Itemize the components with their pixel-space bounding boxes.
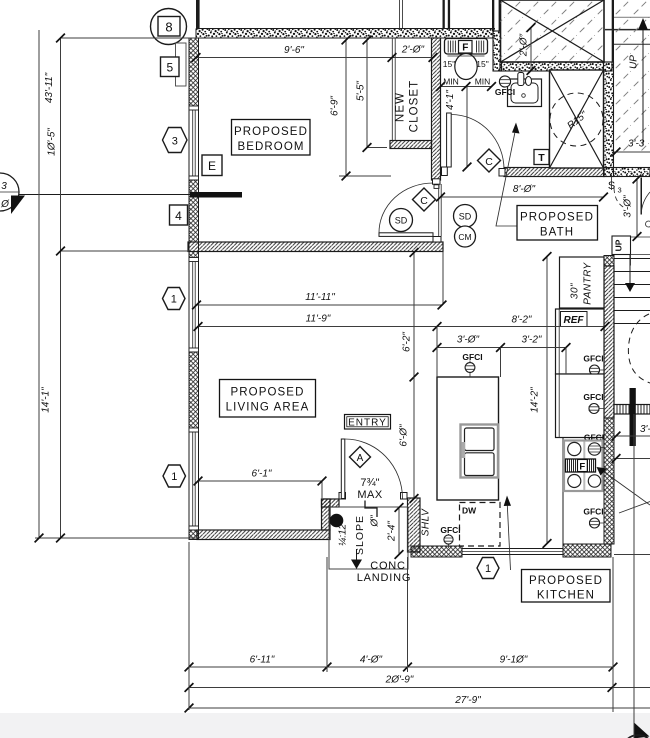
kitchen island: [437, 377, 499, 500]
door knob circle right edge: [646, 221, 650, 227]
bedroom door jamb top: [433, 179, 441, 184]
UP label box near stairs: [612, 236, 631, 255]
smoke detector SD hall: [454, 205, 477, 228]
bath door jamb left: [442, 167, 448, 176]
toilet tank stripes: [448, 41, 484, 53]
svg-text:SD: SD: [459, 212, 472, 222]
svg-text:GFCI: GFCI: [462, 352, 482, 362]
svg-text:8'-2": 8'-2": [512, 315, 532, 326]
left wall hatched segment 4: [189, 352, 199, 428]
vertical dim 6'-9": [339, 39, 391, 176]
vertical dim 14'-2": [546, 256, 548, 545]
label ENTRY: [345, 415, 391, 430]
island extension lines: [437, 327, 566, 378]
svg-text:GFCI: GFCI: [495, 87, 515, 97]
svg-text:3'-Ø": 3'-Ø": [457, 335, 480, 346]
column dot at landing: [330, 514, 344, 528]
svg-text:5: 5: [166, 61, 173, 75]
svg-text:C: C: [420, 195, 428, 207]
dim row 11'-9" / 8'-2": [197, 326, 606, 328]
svg-text:¼:12: ¼:12: [337, 523, 349, 546]
svg-text:PROPOSED: PROPOSED: [520, 212, 594, 224]
entry door swing arc: [345, 439, 403, 499]
range F box: [566, 459, 596, 473]
svg-text:9'-6": 9'-6": [284, 45, 304, 56]
wall lines above closet front: [400, 0, 403, 29]
beam section striped band right edge: [614, 405, 650, 415]
dashed stair curve: [628, 314, 650, 383]
svg-text:SD: SD: [395, 216, 408, 226]
entry step wall riser: [322, 499, 331, 530]
deck board lines top right: [614, 16, 650, 18]
left inner extension line: [60, 37, 62, 538]
kitchen counter section below REF: [556, 374, 605, 438]
svg-text:PROPOSED: PROPOSED: [231, 387, 305, 399]
closet right wall: [432, 38, 441, 180]
dim 3'-3 top right: [614, 151, 650, 153]
stair door swing arc right edge: [641, 192, 650, 215]
vertical dim 6'-2": [413, 252, 415, 378]
bath bottom wall stippled part to right edge: [604, 168, 650, 177]
svg-text:T: T: [538, 152, 545, 164]
top extension to wall: [61, 37, 197, 39]
stair door line at right edge: [640, 178, 642, 215]
svg-text:REF: REF: [564, 315, 585, 326]
svg-text:GFCI: GFCI: [583, 507, 603, 517]
svg-text:3'-2": 3'-2": [522, 335, 542, 346]
svg-text:2Ø'-9": 2Ø'-9": [385, 675, 414, 686]
right dims 3': [614, 435, 650, 437]
svg-text:3: 3: [1, 181, 7, 192]
tag stem rectangle below 8: [176, 43, 187, 86]
svg-text:E: E: [208, 159, 216, 173]
vertical dim 3'-0" right: [636, 178, 638, 237]
svg-text:CLOSET: CLOSET: [409, 80, 421, 133]
svg-text:MIN: MIN: [475, 77, 491, 87]
left outer extension line 43ft: [38, 30, 40, 538]
diamond A entry door: [350, 447, 371, 468]
svg-text:3: 3: [172, 136, 178, 148]
extension at divider wall: [61, 250, 190, 252]
svg-text:1: 1: [171, 294, 177, 306]
svg-text:SLOPE: SLOPE: [354, 515, 366, 555]
svg-text:11'-11": 11'-11": [305, 292, 335, 303]
svg-text:A: A: [357, 453, 364, 464]
svg-text:LANDING: LANDING: [357, 572, 412, 584]
bath sink basin: [511, 83, 538, 103]
diamond C bedroom door: [413, 188, 436, 211]
left wall hatched segment 3 below divider: [189, 252, 199, 258]
refrigerator box: [556, 309, 605, 374]
svg-text:GFCI: GFCI: [583, 392, 603, 402]
kitchen right wall cross-hatched segment: [604, 418, 614, 544]
svg-text:MAX: MAX: [357, 489, 383, 501]
entry door jamb right: [401, 493, 408, 500]
bath door swing arc: [451, 115, 504, 170]
svg-text:15": 15": [476, 59, 488, 69]
hall dim 8'-0": [440, 196, 604, 198]
entry wall top bar: [322, 499, 340, 507]
label PROPOSED BATH: [517, 206, 598, 241]
carbon monoxide CM hall: [455, 226, 476, 247]
left wall hatched segment 1: [189, 38, 199, 106]
svg-text:8: 8: [165, 20, 172, 35]
kitchen bottom wall right block: [563, 544, 611, 557]
svg-text:6'-2": 6'-2": [402, 332, 413, 352]
entry dim 6'-1": [197, 481, 322, 498]
svg-text:KITCHEN: KITCHEN: [537, 590, 595, 602]
leader arrow to range F: [600, 469, 650, 505]
bath sink drain: [522, 94, 526, 98]
kitchen right wall corner block: [604, 256, 614, 267]
tag square 4: [170, 205, 188, 225]
left wall hatched segment 2: [189, 180, 199, 242]
svg-text:2'-Ø": 2'-Ø": [519, 33, 530, 57]
svg-text:MIN: MIN: [443, 77, 459, 87]
bedroom/living divider wall: [188, 242, 443, 252]
north arrow bottom right: [622, 722, 650, 738]
svg-text:3: 3: [618, 186, 622, 195]
svg-text:2'-4": 2'-4": [387, 521, 398, 542]
T marker square: [534, 150, 549, 165]
pantry cabinet: [560, 257, 605, 308]
entry door jamb left: [339, 493, 346, 500]
svg-text:43'-11": 43'-11": [44, 72, 55, 103]
diagonal note line bottom right: [619, 502, 650, 514]
toilet bowl: [455, 54, 477, 80]
svg-text:1Ø'-5": 1Ø'-5": [47, 128, 58, 156]
extension at bottom wall: [35, 537, 197, 539]
existing stair/deck hatched region top right: [614, 0, 650, 166]
dim row 3'-0" / 3'-2": [437, 347, 566, 349]
svg-text:UP: UP: [614, 239, 624, 251]
bath bottom wall hatched part: [504, 168, 604, 177]
window tag circle 8: [151, 9, 187, 45]
svg-text:UP: UP: [629, 55, 640, 69]
svg-text:LIVING AREA: LIVING AREA: [226, 402, 310, 414]
wall pair at shaft left above: [492, 0, 494, 31]
exterior wall stub above top-left corner: [196, 0, 200, 30]
svg-text:6'-Ø": 6'-Ø": [399, 424, 410, 447]
svg-text:GFCI: GFCI: [583, 354, 603, 364]
svg-text:Ø: Ø: [0, 199, 10, 210]
left wall corner block bottom: [189, 530, 199, 540]
svg-text:GFCI: GFCI: [440, 525, 460, 535]
svg-text:CM: CM: [458, 232, 471, 242]
bottom dim row 3: [189, 707, 650, 709]
svg-text:27'-9": 27'-9": [454, 695, 481, 706]
tag square E: [202, 155, 222, 176]
shaft left wall (stippled): [493, 31, 502, 71]
closet bottom wall: [390, 141, 432, 149]
bath door jamb right: [499, 169, 505, 177]
kitchen bottom wall left block: [411, 546, 462, 557]
solid post bar right edge: [630, 388, 636, 446]
svg-text:BATH: BATH: [540, 227, 574, 239]
svg-text:15": 15": [443, 59, 455, 69]
svg-text:4'-1": 4'-1": [445, 90, 456, 110]
bottom extension lines: [189, 414, 634, 738]
svg-text:CONC: CONC: [370, 560, 406, 572]
kitchen bottom wall edge extension right: [614, 554, 650, 556]
svg-text:14'-1": 14'-1": [41, 387, 52, 413]
upper stair UP arrow top right: [642, 21, 644, 145]
window W3 in left wall: [189, 428, 199, 530]
toilet 15" min dim line: [440, 86, 492, 88]
closet front edge lines: [392, 38, 395, 141]
vertical dim 4'-1": [466, 87, 468, 168]
shower back wall (stippled): [604, 62, 614, 177]
living area bottom wall: [197, 530, 330, 540]
leader arrow kitchen label: [507, 505, 510, 570]
kitchen right wall hatched segment: [604, 266, 614, 418]
svg-text:11'-9": 11'-9": [306, 314, 331, 325]
svg-text:6'-1": 6'-1": [252, 469, 272, 480]
kitchen rear threshold / sliding door: [462, 549, 563, 555]
bath door leaf: [447, 113, 452, 167]
wall tag hexagon 1 living: [163, 288, 186, 310]
bath GFCI outlet symbol: [499, 76, 511, 87]
label PROPOSED LIVING AREA: [220, 380, 316, 418]
svg-text:2'-Ø": 2'-Ø": [401, 45, 425, 56]
toilet seat line: [448, 55, 485, 57]
stair down arrow: [629, 254, 631, 284]
vertical dim 6'-0": [413, 377, 415, 499]
toilet tank: [445, 39, 488, 55]
living dim 11'-11": [195, 252, 443, 306]
svg-text:1: 1: [171, 471, 177, 483]
svg-text:6'-9": 6'-9": [330, 96, 341, 116]
toilet flush box F: [459, 41, 473, 54]
bath top wall (stippled): [500, 62, 612, 71]
svg-text:C: C: [485, 156, 493, 168]
bottom dim row 1: [189, 666, 613, 668]
svg-text:DW: DW: [462, 506, 477, 516]
island double sink: [461, 425, 499, 478]
left exterior wall border lines: [189, 38, 199, 539]
shower dashed radius circle: [550, 93, 603, 146]
svg-text:9'-1Ø": 9'-1Ø": [500, 655, 528, 666]
top exterior wall (existing, stippled): [196, 29, 495, 39]
svg-text:PROPOSED: PROPOSED: [529, 575, 603, 587]
svg-text:ENTRY: ENTRY: [348, 418, 387, 429]
bottom dim row 2: [189, 687, 650, 689]
island GFCI outlet: [465, 361, 475, 378]
wall tag hexagon 1 kitchen: [477, 558, 499, 579]
label PROPOSED KITCHEN: [522, 570, 611, 603]
kitchen counter front edge: [562, 438, 564, 547]
svg-text:PROPOSED: PROPOSED: [234, 126, 308, 138]
door tag square 5: [161, 57, 180, 77]
svg-text:6'-11": 6'-11": [250, 655, 275, 666]
bath sink faucet: [518, 73, 524, 86]
svg-text:SHLV: SHLV: [421, 508, 432, 536]
window W2 in left wall: [189, 258, 199, 353]
svg-text:3'-3: 3'-3: [628, 139, 645, 150]
stair door dashed swing: [614, 188, 624, 208]
landing dim 2'-4": [398, 507, 400, 555]
svg-text:30": 30": [570, 283, 581, 299]
stair treads right side: [614, 259, 650, 324]
svg-text:4'-Ø": 4'-Ø": [360, 655, 383, 666]
range / stove: [564, 441, 605, 492]
wall line right of shaft: [612, 0, 614, 62]
leader arrow bath label: [496, 133, 520, 226]
entry right wall: [408, 498, 421, 552]
bedroom doorway side lines: [439, 184, 442, 236]
svg-text:NEW: NEW: [395, 92, 407, 122]
section cut line: [14, 194, 190, 196]
svg-text:4: 4: [175, 209, 182, 223]
entry door leaf: [341, 439, 345, 499]
wall pair above toilet (existing wall above): [443, 0, 445, 29]
shower enclosure: [550, 70, 604, 168]
svg-text:7¾": 7¾": [360, 477, 379, 489]
window tag hexagon 3: [163, 128, 188, 153]
svg-text:PANTRY: PANTRY: [583, 261, 594, 304]
svg-text:BEDROOM: BEDROOM: [237, 141, 304, 153]
threshold step line: [365, 501, 377, 518]
smoke detector SD bedroom: [390, 209, 413, 232]
svg-text:8'-Ø": 8'-Ø": [513, 184, 536, 195]
bath sink counter: [508, 79, 542, 107]
svg-text:F: F: [579, 462, 585, 473]
svg-text:5'-5": 5'-5": [356, 81, 367, 101]
landing outline: [329, 507, 408, 569]
wall tag hexagon 1 lower: [163, 465, 186, 487]
bedroom door swing arc: [379, 183, 433, 233]
vertical dim 2'-0" shaft: [530, 27, 532, 71]
bedroom door leaf: [379, 233, 433, 237]
svg-text:F: F: [462, 43, 468, 54]
svg-text:3'-: 3'-: [640, 424, 650, 435]
label PROPOSED BEDROOM: [232, 120, 311, 156]
svg-text:1: 1: [485, 563, 491, 575]
shaft box with X: [501, 0, 605, 62]
diamond C bath door: [478, 149, 501, 172]
window W1 in left wall: [189, 106, 199, 180]
bedroom top dim line 9'-6" / 2'-0": [196, 57, 433, 59]
svg-text:Ø": Ø": [370, 515, 381, 528]
bedroom door jamb bottom: [433, 237, 441, 243]
dishwasher DW dashed: [460, 503, 501, 547]
slope arrow: [356, 549, 358, 561]
svg-text:3'-Ø": 3'-Ø": [623, 195, 634, 218]
vertical dim 5'-5": [367, 39, 387, 148]
svg-text:14'-2": 14'-2": [530, 387, 541, 413]
bottom gray strip: [0, 713, 650, 738]
section marker circle at left edge: [0, 173, 25, 214]
